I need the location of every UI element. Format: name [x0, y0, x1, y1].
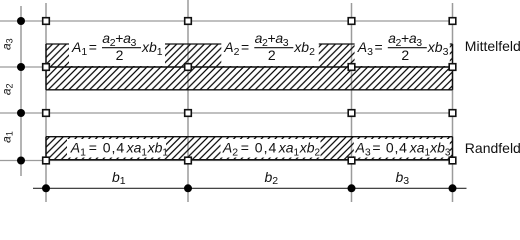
vertical grid line x=188 [187, 0, 189, 202]
svg-text:=: = [89, 140, 97, 156]
svg-text:a3: a3 [0, 38, 14, 50]
Mittelfeld band mid line y=67 [46, 66, 453, 68]
vertical grid line x=21 [20, 6, 22, 176]
svg-text:=: = [241, 39, 249, 55]
Randfeld band left border [45, 137, 47, 161]
svg-text:b2: b2 [265, 169, 279, 187]
horizontal grid line y=67 [0, 66, 453, 68]
svg-text:b1: b1 [112, 169, 126, 187]
square (452.5,113) [449, 110, 456, 117]
svg-text:=: = [241, 140, 249, 156]
Mittelfeld band right border [452, 44, 454, 90]
svg-text:2: 2 [268, 47, 276, 63]
formula A2 Randfeld white box [221, 139, 321, 158]
horizontal grid line y=21 [0, 20, 453, 22]
formula A1 Randfeld white box [67, 139, 166, 158]
node dot (46,188.3) [42, 184, 50, 192]
square (188,67) [185, 64, 192, 71]
vertical grid line x=46 [45, 3, 47, 202]
svg-text:=: = [89, 39, 97, 55]
square (351.5,113) [348, 110, 355, 117]
square (188,21) [185, 18, 192, 25]
formula A1 Randfeld [70, 140, 169, 159]
square (351.5,67) [348, 64, 355, 71]
svg-text:b3: b3 [396, 169, 410, 187]
Randfeld hatched band [46, 137, 453, 160]
formula A3 Mittelfeld [357, 30, 449, 63]
formula A3 Mittelfeld white box [355, 36, 450, 67]
svg-text:2: 2 [116, 47, 124, 63]
svg-text:2: 2 [401, 47, 409, 63]
svg-text:a1: a1 [0, 131, 14, 143]
svg-text:0,4: 0,4 [103, 140, 125, 156]
square (351.5,160.5) [348, 157, 355, 164]
node dot (452.5,188.3) [449, 184, 457, 192]
node dot (351.5,188.3) [348, 184, 356, 192]
Mittelfeld hatched band upper part [46, 44, 453, 67]
Mittelfeld band bottom border [46, 89, 453, 91]
node dot (21,21) [17, 17, 25, 25]
formula A2 Randfeld [222, 140, 321, 159]
node dot (188,188.3) [184, 184, 192, 192]
Mittelfeld band left border [45, 44, 47, 90]
square (46,21) [43, 18, 50, 25]
svg-text:=: = [372, 140, 380, 156]
formula A2 Mittelfeld white box [221, 36, 318, 67]
horizontal grid line y=113 [0, 112, 453, 114]
square (452.5,67) [449, 64, 456, 71]
Mittelfeld hatched band lower part [46, 67, 453, 90]
square (452.5,160.5) [449, 157, 456, 164]
svg-text:Randfeld: Randfeld [465, 140, 520, 156]
formula A3 Randfeld white box [354, 139, 450, 158]
svg-text:0,4: 0,4 [255, 140, 277, 156]
svg-text:0,4: 0,4 [386, 140, 408, 156]
vertical grid line x=452.5 [452, 3, 454, 202]
formula A2 Mittelfeld [223, 30, 315, 63]
svg-text:Mittelfeld: Mittelfeld [465, 38, 520, 54]
node dot (21,113) [17, 109, 25, 117]
node dot (21,67) [17, 63, 25, 71]
Randfeld band top border [46, 136, 453, 138]
node dot (21,160.5) [17, 157, 25, 165]
square (46,113) [43, 110, 50, 117]
square (452.5,21) [449, 18, 456, 25]
formula A1 Mittelfeld [71, 30, 163, 63]
square (188,113) [185, 110, 192, 117]
svg-text:a2: a2 [0, 83, 14, 95]
square (351.5,21) [348, 18, 355, 25]
square (188,160.5) [185, 157, 192, 164]
horizontal grid line y=160.5 [0, 160, 453, 162]
vertical grid line x=351.5 [351, 3, 353, 202]
Mittelfeld band top border [46, 43, 453, 45]
formula A1 Mittelfeld white box [69, 36, 165, 67]
Randfeld band right border [452, 137, 454, 161]
square (46,160.5) [43, 157, 50, 164]
svg-text:=: = [375, 39, 383, 55]
square (46,67) [43, 64, 50, 71]
horizontal bottom line y=188.3 [33, 187, 467, 189]
support squares [43, 18, 456, 164]
Randfeld band bottom border [46, 159, 453, 161]
formula A3 Randfeld [355, 140, 451, 159]
